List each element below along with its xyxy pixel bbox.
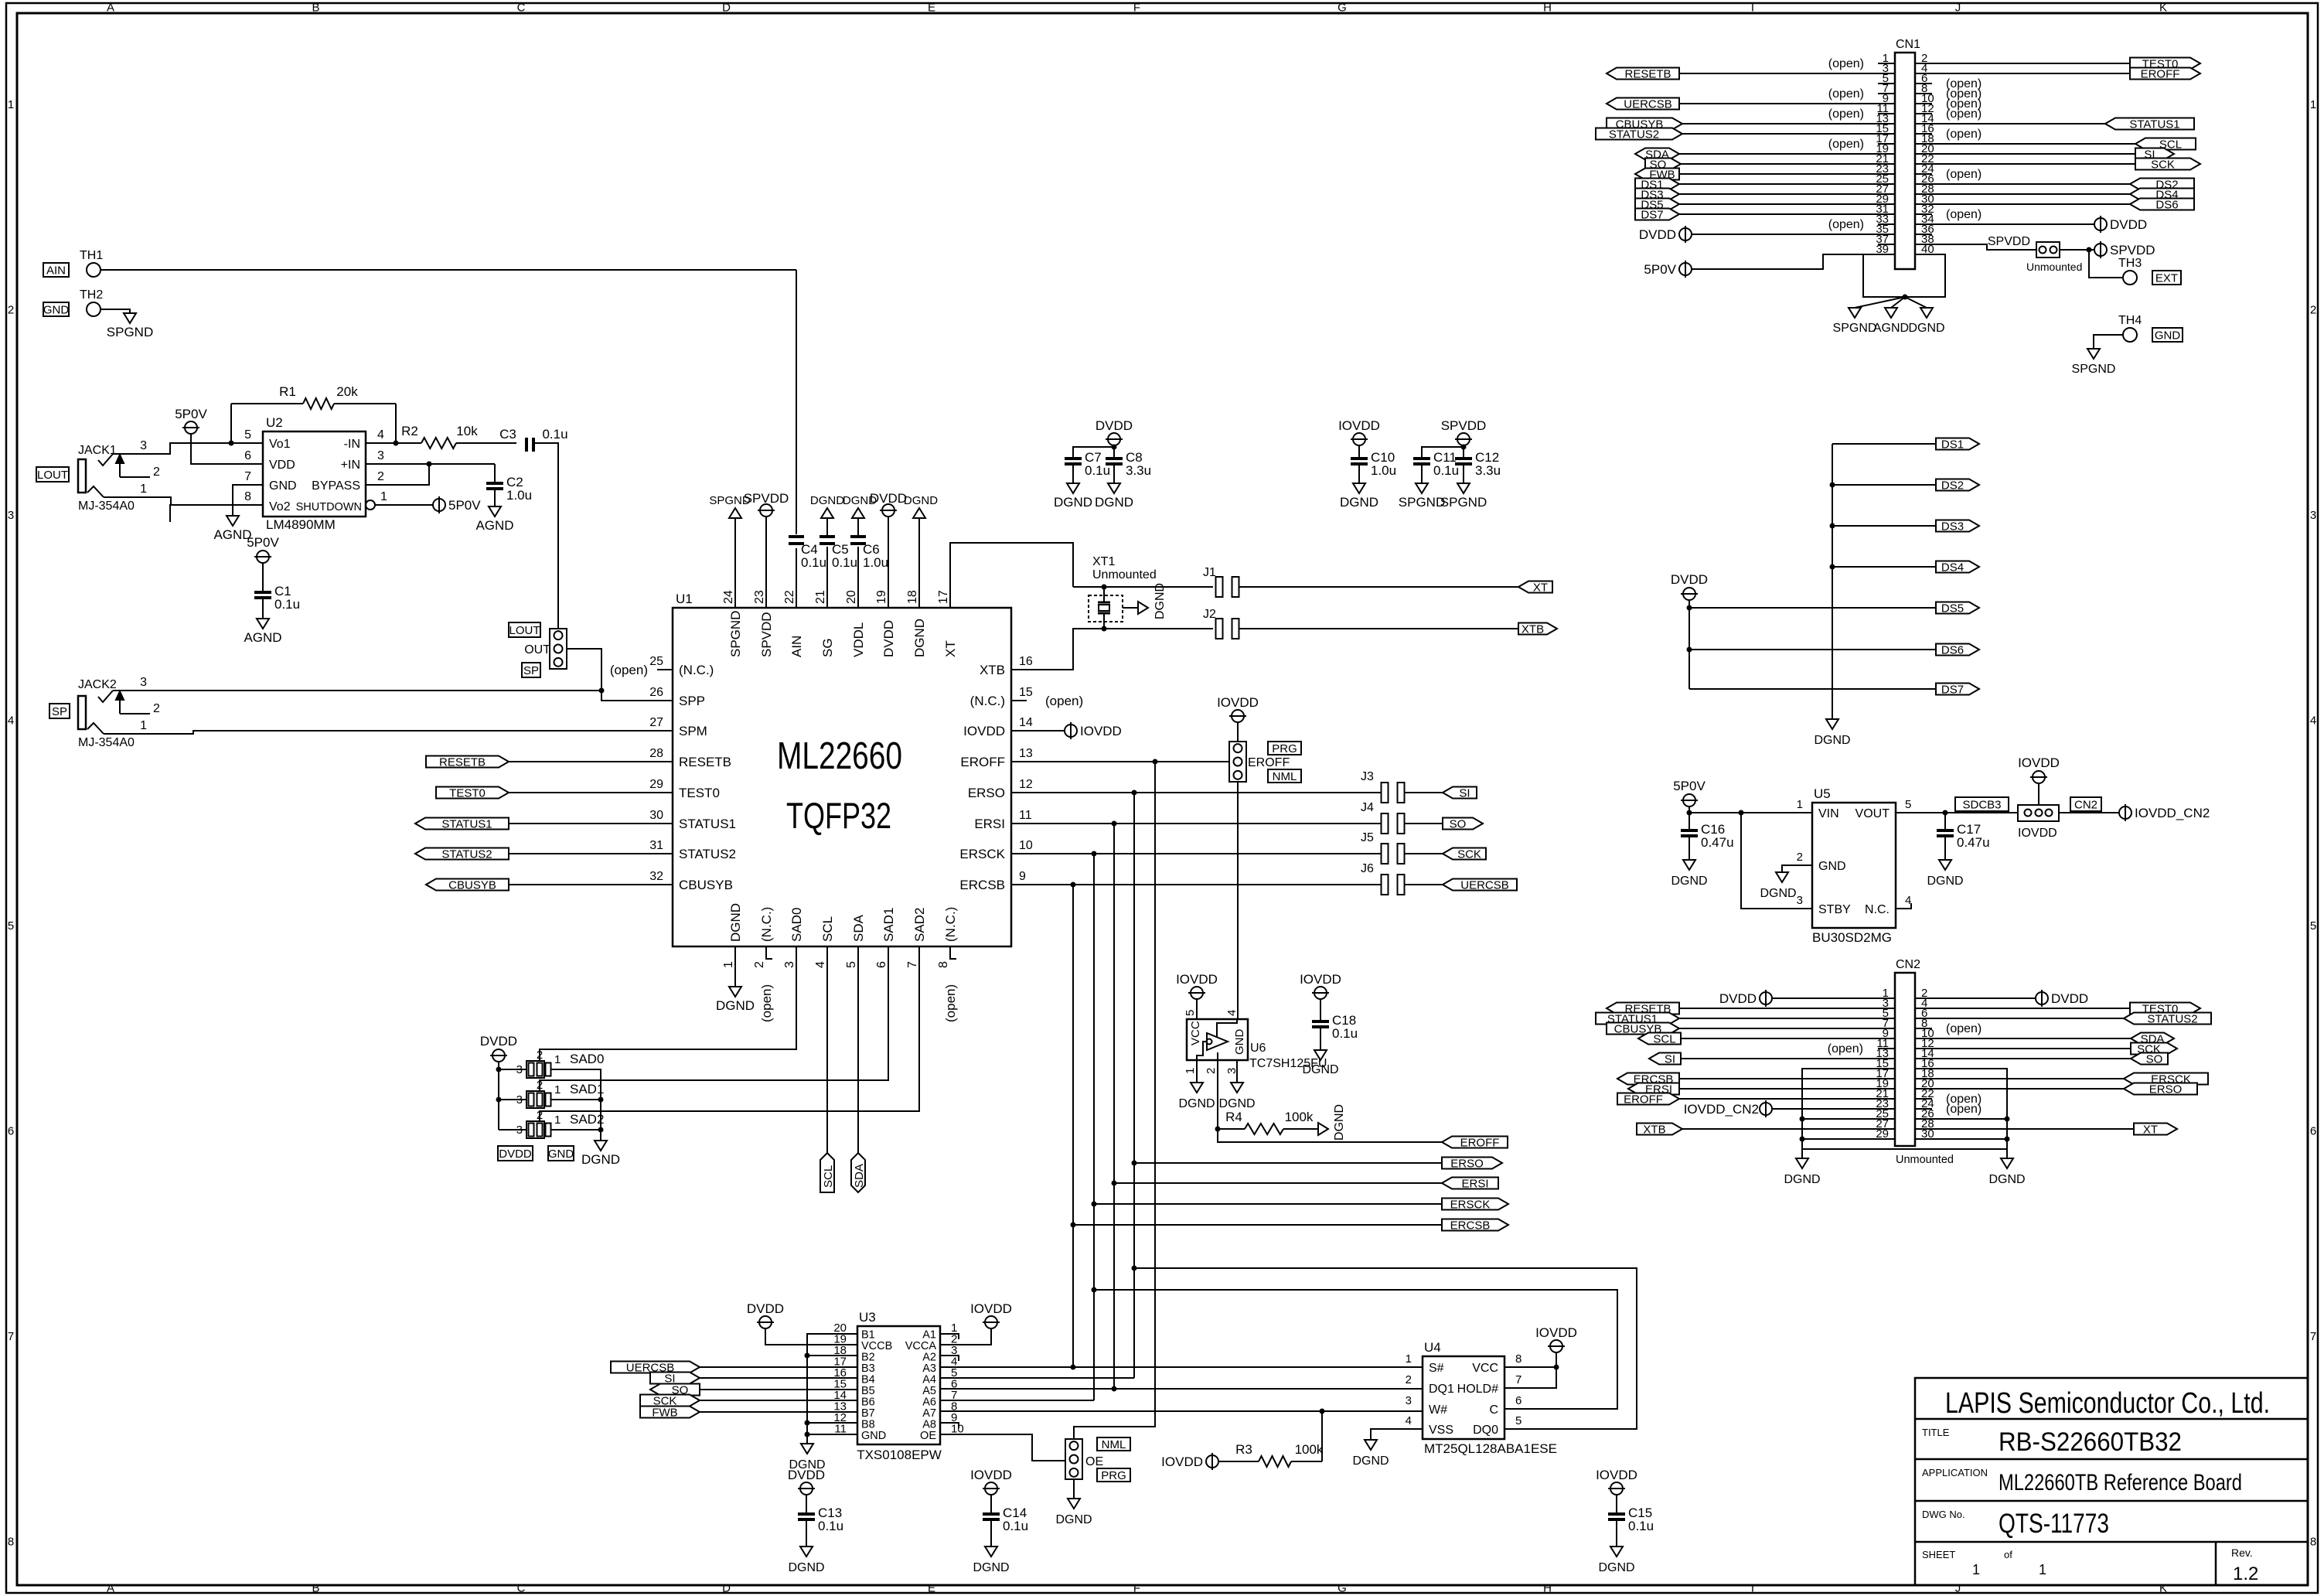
- CN1 left stub pin 37: [1878, 244, 1895, 245]
- wire pin20 VDDL up to C6: [857, 547, 859, 608]
- node junction CN1 gnd: [1903, 295, 1908, 300]
- node junction XT1 top: [1102, 585, 1107, 590]
- svg-text:5P0V: 5P0V: [448, 498, 481, 513]
- node junction -IN/R1/R2: [394, 441, 399, 446]
- power DVDD: [1671, 572, 1708, 600]
- svg-text:DVDD: DVDD: [1719, 991, 1757, 1006]
- wire U4 VCC to IOVDD: [1504, 1366, 1556, 1368]
- U1 pin8 stub (open): [943, 946, 958, 1022]
- pin 3 +IN wire: [366, 463, 429, 465]
- svg-text:DS4: DS4: [1941, 561, 1964, 575]
- svg-text:U6: U6: [1250, 1042, 1266, 1055]
- svg-text:OE: OE: [920, 1430, 936, 1442]
- svg-text:I: I: [1751, 1582, 1754, 1595]
- svg-text:20: 20: [845, 590, 858, 604]
- wire ERSCK branch to U4 C: [1094, 1290, 1617, 1409]
- wire U4 VSS to DGND: [1371, 1429, 1423, 1440]
- svg-text:TH2: TH2: [80, 288, 103, 302]
- CN1 left stub pin 1: [1828, 57, 1895, 70]
- node junction XT1 bottom: [1102, 626, 1107, 632]
- wire pin6 SAD1 down: [540, 946, 888, 1091]
- node junction SAD1 row: [496, 1097, 502, 1103]
- svg-text:18: 18: [906, 590, 919, 604]
- svg-text:DGND: DGND: [1340, 495, 1378, 510]
- flag TEST0 from CN1 pin2: [1915, 58, 2200, 71]
- svg-text:DGND: DGND: [1302, 1063, 1338, 1076]
- svg-text:E: E: [928, 2, 935, 15]
- capacitor C6 1.0u: [850, 518, 888, 570]
- svg-text:7: 7: [906, 961, 919, 968]
- wire SAD2 pad1: [572, 1129, 601, 1130]
- svg-text:STATUS1: STATUS1: [679, 817, 736, 831]
- svg-text:IOVDD_CN2: IOVDD_CN2: [2135, 806, 2210, 820]
- ground DGND arrow pin18: [904, 494, 938, 518]
- svg-text:3: 3: [1406, 1394, 1412, 1407]
- ground DGND arrow pin21: [810, 494, 844, 518]
- svg-text:AGND: AGND: [1873, 322, 1909, 335]
- svg-text:5: 5: [845, 961, 858, 968]
- svg-text:0.47u: 0.47u: [1957, 835, 1990, 850]
- wire jumper to SPVDD: [2060, 249, 2094, 251]
- svg-text:DGND: DGND: [1352, 1454, 1389, 1468]
- wire CN1 pin40 ground loop: [1863, 254, 1945, 297]
- svg-text:DS1: DS1: [1941, 438, 1964, 452]
- connector JACK2 MJ-354A0: [78, 678, 135, 749]
- wire CN2 right gnd bus to DGND: [2006, 1149, 2008, 1158]
- svg-text:1: 1: [140, 483, 147, 496]
- svg-text:SI: SI: [1665, 1053, 1675, 1066]
- node PRG label box: [1268, 742, 1301, 755]
- wire gnd fan right: [1905, 297, 1927, 308]
- svg-text:0.1u: 0.1u: [274, 597, 300, 612]
- ground DGND below DS bus: [1814, 719, 1850, 747]
- svg-text:J4: J4: [1361, 801, 1374, 814]
- svg-text:(open): (open): [1828, 218, 1864, 231]
- connector EROFF select header: [1229, 742, 1246, 782]
- svg-text:1: 1: [8, 98, 14, 111]
- svg-text:SDA: SDA: [853, 1164, 866, 1188]
- node junction C7/C8: [1112, 445, 1117, 450]
- svg-text:(open): (open): [759, 984, 774, 1022]
- node DVDD label box: [498, 1146, 533, 1161]
- svg-text:DVDD: DVDD: [1639, 227, 1676, 242]
- svg-text:VCC: VCC: [1189, 1021, 1202, 1045]
- U3 A2 stub: [940, 1356, 959, 1361]
- svg-text:16: 16: [1019, 655, 1033, 668]
- svg-text:LM4890MM: LM4890MM: [266, 517, 336, 532]
- node junction DS5: [1687, 605, 1692, 611]
- wire OUT middle pin to SPP: [567, 649, 673, 701]
- wire SAD pads pin1 to DGND bus: [572, 1069, 601, 1141]
- ground DGND below C14: [973, 1547, 1009, 1574]
- flag CBUSYB to CN1 pin13: [1607, 118, 1895, 131]
- ground DGND right of XT1: [1138, 583, 1167, 619]
- flag DS3: [1936, 520, 1979, 532]
- svg-text:24: 24: [722, 590, 735, 604]
- capacitor C16: [1681, 822, 1734, 850]
- svg-text:ERCSB: ERCSB: [1450, 1219, 1491, 1233]
- svg-text:W#: W#: [1429, 1403, 1447, 1417]
- U1 right pin 9 ERCSB: [959, 870, 1026, 892]
- capacitor C14 0.1u: [983, 1495, 1028, 1547]
- regulator U5 BU30SD2MG body: [1797, 786, 1912, 945]
- U3 right pin 1 A1: [922, 1321, 957, 1342]
- svg-text:5: 5: [1905, 798, 1911, 811]
- ground DGND: [716, 987, 755, 1013]
- wire DVDD to SAD pads pin3: [498, 1062, 499, 1130]
- svg-text:(N.C.): (N.C.): [943, 907, 958, 942]
- svg-text:STATUS2: STATUS2: [2147, 1013, 2197, 1026]
- wire DVDD to C7/C8: [1073, 445, 1114, 458]
- svg-text:1: 1: [554, 1053, 561, 1066]
- svg-text:AGND: AGND: [244, 630, 281, 645]
- svg-text:1: 1: [554, 1113, 561, 1127]
- svg-text:Unmounted: Unmounted: [2026, 261, 2082, 273]
- svg-text:2: 2: [153, 465, 160, 479]
- wire DS4 row: [1832, 566, 1936, 568]
- power SPVDD: [1441, 418, 1487, 445]
- CN1 left stub pin 7: [1828, 87, 1895, 101]
- U3 right pin 2 VCCA: [905, 1333, 958, 1353]
- svg-text:(open): (open): [1946, 208, 1982, 221]
- power IOVDD: [1176, 972, 1218, 999]
- svg-text:J1: J1: [1203, 566, 1216, 579]
- wire ERCSB flag row: [1073, 1224, 1442, 1226]
- ground SPGND below TH4: [2072, 349, 2116, 376]
- flag SDA vertical: [851, 1153, 866, 1192]
- svg-text:DVDD: DVDD: [747, 1301, 784, 1316]
- CN1 right stub pin 10: [1915, 97, 1982, 111]
- svg-text:DGND: DGND: [1927, 875, 1963, 888]
- svg-text:G: G: [1337, 1582, 1347, 1595]
- svg-text:DS5: DS5: [1941, 602, 1964, 616]
- svg-text:RB-S22660TB32: RB-S22660TB32: [1999, 1427, 2182, 1457]
- svg-text:B: B: [312, 2, 319, 15]
- svg-text:K: K: [2159, 1582, 2167, 1595]
- svg-text:SHUTDOWN: SHUTDOWN: [296, 501, 362, 513]
- power DVDD: [2036, 990, 2088, 1007]
- power IOVDD: [1161, 1453, 1218, 1470]
- ground AGND: [244, 619, 281, 645]
- U1 right pin 10 ERSCK: [959, 839, 1032, 861]
- svg-text:6: 6: [1515, 1394, 1522, 1407]
- wire DS3 row: [1832, 525, 1936, 527]
- svg-text:J: J: [1955, 2, 1961, 15]
- buffer U6 TC7SH125FU: [1184, 1010, 1327, 1074]
- svg-text:GND: GND: [1818, 860, 1846, 873]
- power IOVDD: [1535, 1325, 1577, 1352]
- wire ERSO flag row: [1134, 1162, 1442, 1164]
- svg-text:22: 22: [783, 590, 796, 604]
- wire ERSI vertical: [1113, 824, 1115, 1389]
- CN2 right stub pin22 (open): [1915, 1093, 1982, 1106]
- flag DS2: [1936, 479, 1979, 491]
- jumper SPVDD unmounted: [2026, 242, 2082, 273]
- wire jack1 pin3 to Vo1: [113, 439, 231, 454]
- wire XT row to J1: [1073, 586, 1213, 588]
- node junction +IN/BYPASS/C2: [427, 462, 432, 467]
- svg-text:J6: J6: [1361, 862, 1374, 875]
- svg-text:TH3: TH3: [2118, 257, 2142, 270]
- svg-text:IOVDD: IOVDD: [1176, 972, 1218, 987]
- svg-text:H: H: [1543, 2, 1552, 15]
- wire STBY tie to VIN: [1741, 813, 1812, 909]
- svg-text:SDA: SDA: [851, 914, 866, 942]
- svg-text:DWG No.: DWG No.: [1922, 1509, 1965, 1520]
- svg-text:SCL: SCL: [822, 1165, 835, 1188]
- node junction ERSCK to C branch: [1092, 1287, 1097, 1293]
- wire U3 B1 to ground bus: [807, 1334, 857, 1444]
- wire U6 pin2 down to EROFF row: [1217, 1052, 1218, 1142]
- CN1 left stub pin 11: [1828, 107, 1895, 121]
- wire header bottom to U6 pin4: [1237, 782, 1239, 1018]
- svg-text:G: G: [1337, 2, 1347, 15]
- CN1 right stub pin 24: [1915, 168, 1982, 181]
- svg-text:0.1u: 0.1u: [1628, 1519, 1654, 1533]
- wire ERSCK vertical: [1093, 854, 1095, 1400]
- wire DVDD vertical DS5-7: [1688, 600, 1690, 689]
- U1 left pin 30 STATUS1: [649, 809, 736, 831]
- jack1 pin 2 switch arrow: [116, 455, 160, 479]
- svg-text:SPM: SPM: [679, 724, 707, 738]
- flag SCK from CN2 pin12: [1915, 1043, 2177, 1056]
- CN1 right stub pin 8: [1915, 87, 1982, 101]
- svg-text:XT: XT: [943, 640, 958, 657]
- flag EROFF to CN2 pin21: [1617, 1093, 1895, 1107]
- svg-text:SCL: SCL: [820, 916, 835, 942]
- power IOVDD: [1338, 418, 1380, 445]
- svg-text:5P0V: 5P0V: [175, 407, 207, 421]
- svg-text:R2: R2: [401, 424, 418, 438]
- node junction ERSI flag: [1112, 1181, 1117, 1186]
- wire CN2 pin2 to DVDD: [1915, 997, 2036, 999]
- power SPVDD: [744, 491, 789, 517]
- svg-text:BU30SD2MG: BU30SD2MG: [1812, 930, 1892, 945]
- svg-text:I: I: [1751, 2, 1754, 15]
- svg-text:CBUSYB: CBUSYB: [679, 878, 733, 892]
- node junction EROFF vertical: [1153, 759, 1158, 765]
- wire IOVDD to jumper: [2038, 783, 2039, 805]
- svg-text:LOUT: LOUT: [509, 624, 540, 637]
- power DVDD: [1639, 226, 1692, 243]
- svg-text:SAD1: SAD1: [881, 908, 896, 942]
- svg-text:(N.C.): (N.C.): [759, 907, 774, 942]
- svg-text:VOUT: VOUT: [1855, 807, 1890, 820]
- svg-text:17: 17: [937, 590, 950, 604]
- svg-text:SPGND: SPGND: [1833, 322, 1877, 335]
- svg-text:5: 5: [1515, 1414, 1522, 1427]
- svg-text:2: 2: [1797, 851, 1803, 864]
- svg-text:SPVDD: SPVDD: [1441, 418, 1487, 433]
- wire DS2 row: [1832, 484, 1936, 486]
- wire U6 pin1 to DGND: [1196, 1060, 1198, 1083]
- svg-text:XTB: XTB: [1643, 1124, 1665, 1137]
- flag ERCSB: [1442, 1219, 1508, 1231]
- svg-text:ERSO: ERSO: [2149, 1083, 2183, 1096]
- svg-text:DVDD: DVDD: [1671, 572, 1708, 587]
- svg-text:28: 28: [649, 747, 663, 760]
- CN1 right stub pin 36: [1915, 234, 1932, 235]
- wire R3 to W# row: [1321, 1411, 1323, 1461]
- U3 right pin 3 A2: [922, 1344, 957, 1364]
- svg-text:SPGND: SPGND: [107, 325, 153, 339]
- svg-text:DGND: DGND: [912, 619, 927, 657]
- wire CN2 left gnd bus to DGND: [1801, 1149, 1803, 1158]
- resistor R3 100k pullup: [1218, 1442, 1324, 1467]
- svg-text:1: 1: [722, 961, 735, 968]
- wire pin14 IOVDD: [1011, 730, 1065, 731]
- CN1 right stub pin 6: [1915, 77, 1982, 90]
- svg-text:DVDD: DVDD: [788, 1468, 825, 1482]
- flag DS4: [1936, 561, 1979, 573]
- node GND label box: [548, 1146, 574, 1161]
- svg-text:CN2: CN2: [1896, 958, 1920, 971]
- capacitor C2: [486, 475, 532, 503]
- power IOVDD_CN2: [2119, 804, 2210, 821]
- svg-text:AGND: AGND: [213, 527, 251, 542]
- U1 right pin 15 (N.C.): [970, 686, 1033, 708]
- wire CN1 pin38 to SPVDD jumper: [1915, 244, 2036, 250]
- svg-text:EROFF: EROFF: [1460, 1137, 1500, 1150]
- svg-text:DGND: DGND: [1760, 887, 1796, 900]
- svg-text:GND: GND: [1233, 1029, 1246, 1055]
- svg-text:IOVDD: IOVDD: [1217, 695, 1259, 710]
- flag TEST0 from CN2 pin4: [1915, 1003, 2200, 1016]
- power SPVDD: [2094, 241, 2155, 258]
- svg-text:5: 5: [8, 919, 14, 933]
- svg-text:DGND: DGND: [1178, 1097, 1215, 1110]
- capacitor C10 1.0u: [1351, 445, 1396, 483]
- jumper IOVDD/CN2 3-pin: [2018, 805, 2059, 840]
- ground DGND arrow pin20: [843, 494, 877, 518]
- wire CN2 pin26 to right gnd bus: [1915, 1118, 2007, 1120]
- jumper SAD1 pads: [499, 1079, 604, 1108]
- U1 right pin 12 ERSO: [968, 778, 1033, 800]
- svg-text:SPGND: SPGND: [728, 611, 743, 657]
- svg-text:DGND: DGND: [788, 1561, 824, 1574]
- svg-text:2: 2: [753, 961, 766, 968]
- U1 right pin 13 EROFF: [960, 747, 1033, 769]
- svg-text:2: 2: [377, 470, 384, 483]
- flag CBUSYB to CN2 pin7: [1607, 1023, 1895, 1036]
- svg-text:7: 7: [2310, 1330, 2316, 1343]
- ground AGND: [213, 516, 251, 542]
- U3 left pin 13 B7: [833, 1400, 874, 1420]
- wire U3 GND pin11: [807, 1434, 857, 1435]
- svg-text:23: 23: [753, 590, 766, 604]
- svg-text:1.0u: 1.0u: [863, 555, 888, 570]
- svg-text:2: 2: [537, 1079, 543, 1092]
- svg-text:ERSCK: ERSCK: [959, 847, 1005, 861]
- wire U3 B8: [807, 1422, 857, 1424]
- wire pin11 ERSI to J4: [1011, 823, 1382, 824]
- U3 left pin 14 B6: [833, 1389, 874, 1409]
- capacitor C7: [1065, 450, 1110, 478]
- svg-text:30: 30: [649, 809, 663, 822]
- svg-text:29: 29: [649, 778, 663, 791]
- svg-text:1.0u: 1.0u: [1371, 463, 1396, 478]
- svg-text:XT: XT: [1533, 581, 1548, 595]
- wire U5 GND to DGND: [1782, 865, 1812, 872]
- ground DGND at U5 GND: [1760, 872, 1796, 900]
- flag DS5: [1936, 602, 1979, 614]
- svg-text:GND: GND: [548, 1148, 574, 1161]
- wire +IN to C2: [429, 463, 495, 465]
- svg-text:DGND: DGND: [1671, 875, 1707, 888]
- U3 left pin 18 B2: [833, 1344, 874, 1364]
- pin 8 Vo2 wire: [170, 505, 263, 522]
- wire pin10 ERSCK to J5: [1011, 853, 1382, 854]
- svg-text:1: 1: [140, 719, 147, 732]
- U5 NC stub: [1896, 903, 1911, 909]
- capacitor C11 0.1u: [1413, 450, 1459, 483]
- wire OE pin10 to OE header: [940, 1434, 1065, 1461]
- flag FWB to U3 B7: [640, 1407, 857, 1420]
- svg-text:5P0V: 5P0V: [1673, 779, 1706, 793]
- wire SAD1 pad1: [572, 1099, 601, 1100]
- svg-text:DGND: DGND: [581, 1152, 620, 1167]
- ground SPGND arrow pin24: [709, 494, 751, 518]
- ground DGND below U3 B-bus: [789, 1444, 825, 1472]
- svg-text:3: 3: [8, 509, 14, 522]
- wire CN2 pin25 to gnd bus: [1802, 1118, 1895, 1120]
- svg-text:XTB: XTB: [1522, 623, 1544, 636]
- svg-text:TH1: TH1: [80, 249, 103, 262]
- svg-text:U5: U5: [1814, 786, 1831, 801]
- svg-text:ERCSB: ERCSB: [959, 878, 1005, 892]
- U1 left pin 32 CBUSYB: [649, 870, 733, 892]
- wire pin3 SAD0 down: [540, 946, 796, 1060]
- svg-text:3: 3: [516, 1093, 523, 1107]
- svg-text:NML: NML: [1273, 770, 1297, 783]
- svg-text:3: 3: [140, 439, 147, 452]
- power DVDD: [1096, 418, 1133, 445]
- svg-text:25: 25: [649, 655, 663, 668]
- wire gnd fan mid: [1891, 297, 1905, 308]
- svg-text:2: 2: [153, 702, 160, 715]
- svg-text:TQFP32: TQFP32: [786, 795, 891, 836]
- ground DGND: [581, 1141, 620, 1167]
- flag SO to U3 B5: [650, 1384, 857, 1397]
- svg-text:3: 3: [1797, 894, 1803, 907]
- flag XTB to CN2 pin27: [1637, 1124, 1895, 1137]
- ground DGND below C7: [1054, 483, 1092, 510]
- node junction SPVDD/TH3: [2087, 247, 2092, 253]
- power 5P0V: [1673, 779, 1706, 807]
- node LOUT label at JACK1: [36, 467, 69, 482]
- svg-text:DVDD: DVDD: [1096, 418, 1133, 433]
- svg-text:0.1u: 0.1u: [801, 555, 826, 570]
- power IOVDD: [1300, 972, 1341, 999]
- wire TH2 to SPGND: [101, 309, 130, 313]
- capacitor C13 0.1u: [798, 1495, 843, 1547]
- svg-text:TXS0108EPW: TXS0108EPW: [857, 1448, 942, 1462]
- svg-text:IOVDD: IOVDD: [1300, 972, 1341, 987]
- svg-text:GND: GND: [861, 1430, 886, 1442]
- wire pin23 SPVDD up: [765, 517, 767, 608]
- power 5P0V: [433, 496, 481, 513]
- svg-text:SG: SG: [820, 638, 835, 657]
- svg-text:ERSCK: ERSCK: [1450, 1199, 1491, 1212]
- capacitor C13: [798, 1506, 843, 1533]
- pin 7 GND wire: [233, 485, 263, 516]
- svg-text:4: 4: [1406, 1414, 1412, 1427]
- svg-text:SPGND: SPGND: [2072, 363, 2116, 376]
- svg-text:D: D: [722, 2, 731, 15]
- wire CN1 pin34 to DVDD: [1915, 223, 2094, 225]
- svg-text:(open): (open): [610, 663, 648, 677]
- U1 right pin 16 XTB: [980, 655, 1033, 677]
